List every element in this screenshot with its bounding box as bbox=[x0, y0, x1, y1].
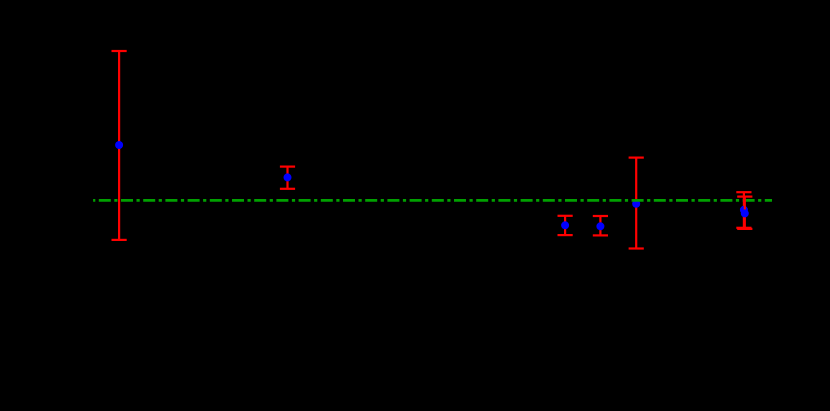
data point P6b error bar bbox=[737, 197, 752, 229]
data point P5 marker bbox=[632, 200, 640, 208]
data point P1 marker bbox=[115, 141, 123, 149]
data point P5 error bar (drawn beneath reference line) bbox=[629, 158, 644, 249]
data point P3 marker bbox=[561, 221, 569, 229]
green dash-dot reference line bbox=[93, 199, 772, 202]
data point P3 error bar bbox=[558, 216, 573, 235]
data point P6a marker bbox=[740, 206, 748, 214]
data point P6a error bar bbox=[736, 192, 751, 228]
data point P6b marker bbox=[741, 209, 749, 217]
wire bbox=[635, 158, 637, 249]
data point P2 marker bbox=[284, 173, 292, 181]
data point P2 error bar bbox=[280, 167, 295, 189]
data point P1 error bar bbox=[112, 51, 127, 240]
data point P4 error bar bbox=[593, 216, 608, 235]
data point P4 marker bbox=[596, 222, 604, 230]
